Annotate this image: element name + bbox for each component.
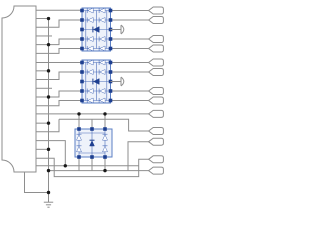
wire row7 to U2 pin1 [36, 62, 82, 64]
wire connector bottom pin to GND [25, 172, 49, 193]
junction busB/rail [47, 169, 50, 172]
wire row6 to U1 pin5 [36, 49, 82, 54]
wire U1 pin6 to port P4 [111, 48, 149, 50]
port P6 [149, 69, 164, 76]
port P8 [149, 97, 164, 104]
wire U2 pin10 to port P5 [111, 62, 149, 64]
wire U3 top pin3 stub [104, 114, 106, 129]
wire U2 pin7 to port P7 [111, 90, 149, 92]
ESD protection array U3 [75, 127, 112, 159]
wire row4 stub [36, 35, 52, 37]
junction U3 stub1/row13 net [77, 112, 80, 115]
junction row5/rail [47, 43, 50, 46]
wire row10 stub [36, 87, 52, 89]
wire U3 bottom pin4 stub [78, 157, 80, 171]
off-sheet connector U2 pin NC [111, 77, 124, 86]
wire row11 to U2 pin4 [36, 91, 82, 97]
wire U3 top pin2 stub [91, 119, 93, 129]
wire row18 outer loop around U3 to port P12 [36, 158, 149, 176]
wire row3 to U1 pin2 [36, 20, 82, 27]
wire upper bus to port P10 [59, 119, 149, 131]
off-sheet connector U1 pin NC [111, 25, 124, 34]
wire row9 to U2 pin2 [36, 72, 82, 80]
junction row11/rail [47, 95, 50, 98]
junction U3 stub3/row13 net [103, 112, 106, 115]
wire row16 jog down to bus A [36, 141, 65, 166]
port P13 [149, 167, 164, 174]
wire U3 bottom pin6 stub [104, 157, 106, 171]
wire U1 pin9 to port P2 [111, 19, 149, 21]
port P1 [149, 7, 164, 14]
port P3 [149, 36, 164, 43]
wire row19 bus A [36, 165, 139, 167]
wire port P11 to bus B [128, 142, 149, 171]
connector J1 body [2, 6, 36, 172]
port P5 [149, 59, 164, 66]
wire lower bus B to port P13 [49, 170, 149, 172]
wire U1 pin10 to port P1 [111, 10, 149, 12]
port P12 [149, 156, 164, 163]
junction row8/rail [47, 69, 50, 72]
ground symbol [44, 202, 53, 207]
TVS diode array U1 [80, 8, 112, 51]
junction U3 pin6/bus B [103, 169, 106, 172]
wire U1 pin7 to port P3 [111, 38, 149, 40]
wire U2 pin6 to port P8 [111, 100, 149, 102]
junction row14/rail [47, 121, 50, 124]
wire row8 to GND rail [36, 70, 49, 72]
wire row1 to U1 pin1 [36, 9, 82, 11]
port P11 [149, 138, 164, 145]
junction row16/bus A [64, 164, 67, 167]
wire row2 to GND rail [36, 18, 49, 20]
wire row14 to GND rail [36, 122, 49, 124]
junction row2/rail [47, 17, 50, 20]
GND rail [48, 19, 50, 203]
wire row5 to U1 pin4 [36, 39, 82, 45]
wire row15 jog to upper bus [36, 119, 59, 132]
port P2 [149, 17, 164, 24]
wire row13 net to port P9 [36, 113, 149, 115]
port P7 [149, 88, 164, 95]
wire U3 top pin1 stub [78, 114, 80, 129]
wire U3 bottom pin5 stub [91, 157, 93, 171]
wire row17 to GND rail [36, 148, 49, 150]
port P4 [149, 45, 164, 52]
junction gnd wire/rail [47, 191, 50, 194]
junction row17/rail [47, 148, 50, 151]
port P9 [149, 110, 164, 117]
TVS diode array U2 [80, 60, 112, 103]
wire row12 to U2 pin5 [36, 101, 82, 106]
port P10 [149, 128, 164, 135]
wire U2 pin9 to port P6 [111, 71, 149, 73]
